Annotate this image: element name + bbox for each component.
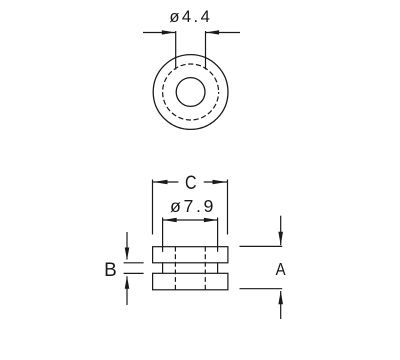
top view hole circle [176,78,205,107]
dimension Ø4.4 left arrowhead [162,30,175,34]
dimension Ø7.9 left extension line [162,218,164,252]
dimension Ø4.4 left extension line [175,31,177,70]
dimension Ø7.9 right extension line [217,218,219,252]
side view top flange [153,247,228,263]
dimension A upper extension line [240,245,283,247]
dimension B bottom arrowhead [125,276,130,289]
dimension Ø4.4 right extension line [205,31,207,70]
side view groove right edge [217,263,219,274]
dimension C right extension line [227,180,229,235]
dimension C left line [153,181,179,183]
dimension A lower extension line [240,288,283,290]
svg-text:C: C [185,172,197,194]
dimension B upper extension line [124,262,144,264]
dimension B lower extension line [124,272,144,274]
dimension A top arrowhead [278,232,283,246]
dimension Ø7.9 line [163,219,218,221]
dimension A top arrow line [280,216,282,246]
dimension Ø4.4 right arrowhead [206,30,219,34]
dimension Ø4.4 left arrow line [143,32,176,34]
dimension A bottom arrow line [280,291,282,319]
svg-text:B: B [104,260,117,281]
svg-text:ø7.9: ø7.9 [170,196,216,216]
svg-text:A: A [276,260,286,279]
dimension C left arrowhead [153,180,167,184]
side view groove left edge [162,263,164,274]
side view bottom flange [153,273,228,290]
top view outer circle [153,55,228,130]
dimension C left extension line [152,180,154,235]
top view groove circle (hidden, dashed) [163,64,219,120]
dimension A bottom arrowhead [278,291,283,304]
dimension Ø7.9 right arrowhead [204,218,218,222]
dimension Ø7.9 left arrowhead [163,218,177,222]
dimension Ø4.4 right arrow line [206,32,241,34]
dimension B bottom arrow line [126,276,128,305]
side view hole hidden line left [174,247,176,290]
dimension B top arrowhead [125,248,130,260]
dimension B top arrow line [126,232,128,260]
dimension C right arrowhead [213,180,227,184]
side view hole hidden line right [204,247,206,290]
svg-text:ø4.4: ø4.4 [169,7,212,26]
dimension C right line [204,181,227,183]
